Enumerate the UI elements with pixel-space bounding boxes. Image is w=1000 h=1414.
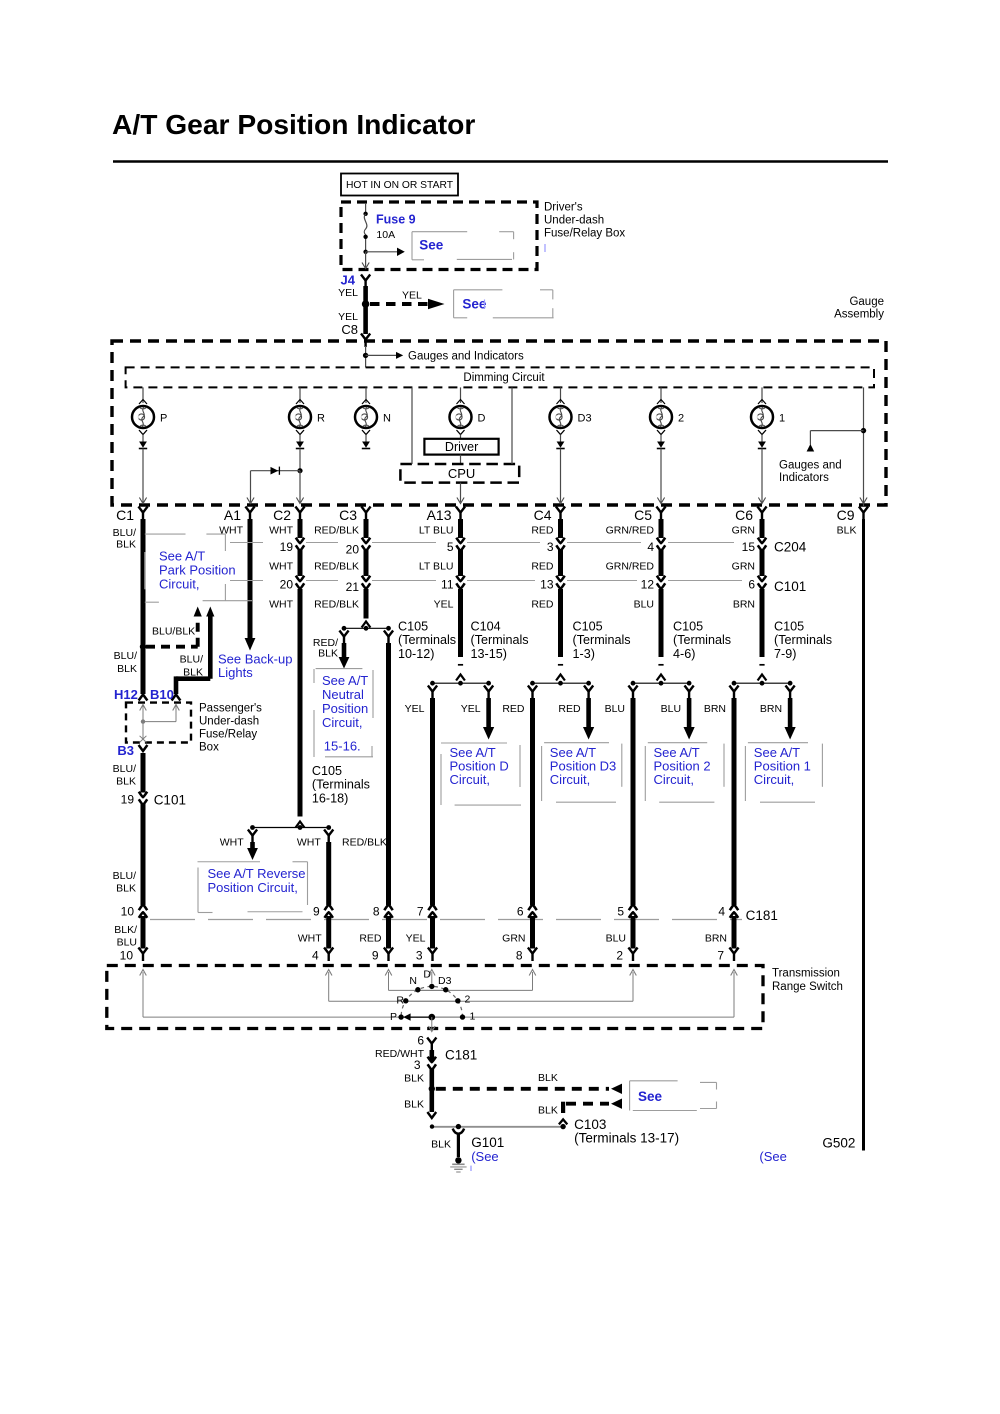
svg-text:C6: C6 — [735, 507, 753, 523]
svg-text:(See: (See — [471, 1149, 498, 1164]
svg-text:Indicators: Indicators — [779, 472, 829, 484]
range switch feed P (pin 10) — [140, 970, 461, 1018]
svg-text:BLK: BLK — [117, 663, 137, 675]
connector reverse branch — [248, 830, 257, 844]
diode D-P — [139, 435, 147, 449]
note: See Back-up Lights — [218, 652, 292, 681]
svg-text:21: 21 — [346, 580, 360, 594]
svg-text:WHT: WHT — [219, 525, 243, 537]
connector pin 13 at C101 — [540, 576, 565, 592]
wire: bulb D3 to connector (exit arrow) — [557, 449, 564, 504]
wire label C5 colour — [606, 525, 655, 537]
svg-text:R: R — [396, 995, 404, 1007]
svg-text:C101: C101 — [154, 793, 186, 808]
svg-text:BLK: BLK — [837, 525, 857, 537]
rotary wiper arm (arrow to P) — [403, 1013, 435, 1020]
wire label C9 colour — [837, 525, 857, 537]
wire label BLU lower — [634, 598, 654, 610]
svg-text:See A/T: See A/T — [159, 549, 205, 564]
svg-text:YEL: YEL — [434, 598, 454, 610]
svg-text:P: P — [160, 413, 167, 425]
svg-text:GRN/RED: GRN/RED — [606, 560, 655, 572]
svg-text:BLU: BLU — [605, 703, 625, 715]
branch node 1 (chevron + rail) — [732, 675, 793, 686]
ground symbol G101 — [450, 1157, 466, 1172]
wire label C2 colour — [269, 525, 293, 537]
connector C9 (gauge assembly exit) — [837, 507, 869, 524]
svg-text:15-16.: 15-16. — [324, 739, 361, 754]
wire J4 YEL down to C8 — [338, 286, 365, 334]
connector pin 8 into range switch — [516, 948, 537, 963]
svg-text:RED: RED — [359, 933, 382, 945]
rotary contact points P R N D D3 2 1 — [398, 984, 465, 1020]
branch node C3 (chevron + rail) — [342, 622, 391, 631]
connector pin 6 below range switch — [417, 1034, 436, 1052]
svg-text:See: See — [638, 1089, 663, 1104]
connector pin 11 at C101 — [441, 576, 465, 592]
svg-text:1: 1 — [470, 1011, 476, 1023]
wire label RED mid — [531, 560, 554, 572]
indicator bulb R — [289, 406, 325, 428]
connector C1 (gauge assembly exit) — [116, 507, 148, 524]
wire label WHT mid — [269, 560, 293, 572]
wire C1 BLU/BLK to H12 — [141, 647, 146, 694]
svg-text:BLK: BLK — [538, 1105, 558, 1117]
svg-text:2: 2 — [465, 994, 471, 1006]
connector pin 15 at C204 — [742, 538, 767, 554]
rotary position labels — [390, 969, 476, 1024]
connector pin 5 at C204 — [447, 538, 465, 554]
svg-text:Position Circuit,: Position Circuit, — [208, 880, 298, 895]
Passenger's Under-dash Fuse/Relay Box (dashed) — [126, 703, 262, 754]
svg-text:20: 20 — [346, 542, 360, 556]
svg-text:10A: 10A — [376, 229, 395, 241]
svg-text:Circuit,: Circuit, — [550, 772, 590, 787]
wire label BLK (lower left) — [404, 1099, 424, 1111]
svg-text:1: 1 — [779, 413, 785, 425]
wire segment C181 x=143 + colour BLK//BLU — [114, 916, 143, 949]
wire C2 right branch down — [326, 842, 331, 905]
wire label RED lower — [531, 598, 554, 610]
svg-text:RED: RED — [558, 703, 581, 715]
svg-text:Park Position: Park Position — [159, 563, 236, 578]
svg-text:B3: B3 — [117, 743, 134, 758]
wire YEL into branch (D) — [458, 589, 463, 657]
svg-text:(Terminals: (Terminals — [573, 633, 631, 647]
svg-text:RED/BLK: RED/BLK — [342, 837, 387, 849]
svg-text:Box: Box — [199, 742, 219, 754]
range switch feed N (pin 9) — [385, 970, 445, 991]
junction node R/backup — [297, 468, 302, 473]
label Gauges and Indicators (right) — [779, 460, 842, 484]
wire label RED/BLK (C3 branch at 842) — [342, 837, 387, 849]
svg-text:Driver's: Driver's — [544, 202, 583, 214]
wire: fuse to J4 (down arrow) — [362, 252, 369, 269]
svg-text:6: 6 — [748, 578, 755, 592]
branch node C2 (chevron + rail) — [250, 822, 331, 830]
svg-text:Circuit,: Circuit, — [159, 577, 199, 592]
label C105 (Terminals 16-18) — [312, 764, 370, 805]
wire: Gauges and Indicators pickup (corner) — [807, 431, 864, 452]
wire: dimming circuit feed to bulb N — [362, 387, 370, 404]
wire BRN into branch (1) — [760, 589, 765, 657]
svg-text:Passenger's: Passenger's — [199, 703, 262, 715]
wire segment C181 x=633 + colour BLU — [606, 916, 633, 949]
wire: dimming circuit feed to bulb 2 — [657, 387, 665, 404]
svg-text:LT BLU: LT BLU — [419, 560, 454, 572]
wire label WHT (C2 right branch) — [297, 837, 321, 849]
wire C1 B3 to pin19 — [141, 753, 146, 793]
note: See A/T Park Position Circuit — [145, 534, 252, 602]
label C105 (Terminals 7-9) — [774, 620, 832, 661]
wire C3 right branch down — [386, 643, 391, 905]
indicator bulb D — [450, 406, 486, 428]
svg-text:BLK: BLK — [183, 667, 203, 679]
connector on neutral branch — [339, 631, 348, 645]
dashed branch to park-position arrow — [146, 607, 202, 647]
diode on back-up feed (horizontal) — [251, 467, 301, 475]
wire label BLU/ BLK (B10 wire) — [180, 654, 203, 679]
wire segment C181 x=532.5 + colour GRN — [502, 916, 532, 949]
range switch feed 1 (pin 7) — [402, 970, 737, 1018]
connector A13 (gauge assembly exit) — [427, 507, 466, 524]
diode D-D3 — [556, 435, 564, 449]
svg-text:D: D — [423, 969, 431, 981]
wire label BLK (upper) — [404, 1073, 424, 1085]
diode D-2 — [657, 435, 665, 449]
wire label YEL (left branch) — [405, 703, 425, 715]
diode D-R — [296, 435, 304, 449]
svg-text:BLU/: BLU/ — [113, 870, 136, 882]
connector C6 (gauge assembly exit) — [735, 507, 767, 524]
svg-text:Circuit,: Circuit, — [754, 772, 794, 787]
svg-text:4: 4 — [647, 540, 654, 554]
svg-text:(See: (See — [759, 1149, 786, 1164]
svg-text:BLU/BLK: BLU/BLK — [152, 626, 195, 638]
connector row C204 (grey line) — [230, 540, 807, 555]
link box: See (fuse box detail) — [412, 232, 514, 260]
connector pin 8 above C181 — [373, 905, 393, 919]
link box: See (ground distribution) — [630, 1081, 717, 1111]
wire label BRN (right branch) — [760, 703, 782, 715]
connector chevron below bulb D3 — [557, 430, 565, 435]
svg-text:C105: C105 — [573, 620, 603, 634]
arrow to See A/T Reverse Position Circuit — [247, 842, 258, 860]
arrow to See A/T Position 2 Circuit — [684, 698, 695, 740]
svg-text:RED: RED — [502, 703, 525, 715]
svg-text:RED: RED — [531, 560, 554, 572]
svg-text:N: N — [409, 975, 417, 987]
connector pin 7 into range switch — [717, 948, 738, 963]
label G101 (See — [471, 1135, 504, 1171]
svg-text:Circuit,: Circuit, — [322, 715, 362, 730]
svg-text:20: 20 — [280, 578, 294, 592]
range switch feed D (pin 3) — [429, 970, 436, 984]
svg-text:Lights: Lights — [218, 665, 253, 680]
svg-text:See: See — [419, 237, 444, 252]
indicator bulb P — [132, 406, 167, 428]
connector pin 4 at C204 — [647, 538, 665, 554]
svg-text:2: 2 — [616, 949, 623, 963]
svg-text:BLU/: BLU/ — [113, 763, 136, 775]
connector pin 5 above C181 — [617, 905, 637, 919]
wire label WHT (reverse) — [220, 837, 244, 849]
svg-text:Fuse/Relay Box: Fuse/Relay Box — [544, 228, 625, 240]
svg-text:A1: A1 — [224, 507, 241, 523]
svg-text:6: 6 — [517, 905, 524, 919]
svg-text:D3: D3 — [578, 413, 592, 425]
connector left branch D — [428, 686, 437, 700]
wire label YEL (right branch) — [461, 703, 481, 715]
svg-text:(Terminals: (Terminals — [673, 633, 731, 647]
Driver box — [424, 435, 498, 455]
indicator bulb N — [355, 406, 391, 428]
svg-text:WHT: WHT — [298, 933, 322, 945]
svg-text:D: D — [478, 413, 486, 425]
label G502 — [822, 1136, 855, 1151]
svg-text:WHT: WHT — [220, 837, 244, 849]
wire label BLU (left branch) — [605, 703, 625, 715]
inline connector mark (dash) D3 — [558, 664, 563, 666]
arrow + label Gauges and Indicators (top) — [366, 350, 524, 362]
connector right branch 2 — [685, 686, 694, 700]
connector pin 4 above C181 — [718, 905, 738, 919]
label (See (bottom right) — [759, 1149, 786, 1164]
svg-text:RED: RED — [531, 598, 554, 610]
wire: bulb R to junction — [299, 449, 301, 471]
svg-text:C181: C181 — [445, 1048, 477, 1063]
wire segment above row1 x=661 — [659, 519, 664, 538]
svg-text:BLU: BLU — [117, 937, 137, 949]
wire: dimming circuit feed to bulb R — [296, 387, 304, 404]
connector pin 21 at C101 — [346, 576, 371, 595]
svg-text:GRN: GRN — [732, 560, 755, 572]
connector pin 12 at C101 — [641, 576, 666, 592]
connector C3 (gauge assembly exit) — [339, 507, 371, 524]
svg-text:13: 13 — [540, 578, 554, 592]
connector chevron below bulb R — [296, 430, 304, 435]
wire segment row1-row2 x=366 — [364, 550, 369, 577]
branch node D3 (chevron + rail) — [530, 675, 591, 686]
svg-text:G101: G101 — [471, 1135, 504, 1150]
svg-text:C105: C105 — [673, 620, 703, 634]
svg-text:C101: C101 — [774, 579, 806, 594]
svg-text:CPU: CPU — [448, 466, 475, 481]
svg-text:BLK: BLK — [404, 1073, 424, 1085]
wire label BRN lower — [733, 598, 755, 610]
range switch feed R (pin 4) — [325, 970, 456, 1002]
svg-text:7: 7 — [417, 905, 424, 919]
connector pin 3 into range switch — [416, 948, 437, 963]
wire label BRN (left branch) — [704, 703, 726, 715]
svg-text:2: 2 — [678, 413, 684, 425]
inline connector mark (dash) 2 — [658, 664, 663, 666]
svg-text:12: 12 — [641, 578, 655, 592]
svg-text:8: 8 — [373, 905, 380, 919]
svg-text:Circuit,: Circuit, — [654, 772, 694, 787]
wire C3 lower — [364, 589, 369, 619]
svg-text:C5: C5 — [634, 507, 652, 523]
wire segment row1-row2 x=762 — [760, 550, 765, 577]
wire C1 pin19 to pin10 — [141, 804, 146, 906]
wire BLK down — [429, 1069, 434, 1112]
svg-text:WHT: WHT — [297, 837, 321, 849]
label C104 (Terminals 13-15) — [471, 620, 529, 661]
note: See A/T Position D3 Circuit — [542, 743, 622, 803]
svg-text:BLK/: BLK/ — [114, 924, 137, 936]
svg-text:(Terminals: (Terminals — [312, 778, 370, 792]
svg-text:C105: C105 — [312, 764, 342, 778]
svg-text:C9: C9 — [837, 507, 855, 523]
connector C5 (gauge assembly exit) — [634, 507, 666, 524]
dashed YEL branch wire with arrow — [370, 290, 445, 310]
svg-text:C3: C3 — [339, 507, 357, 523]
svg-text:10: 10 — [120, 949, 134, 963]
diode D-1 — [758, 435, 766, 449]
svg-text:LT BLU: LT BLU — [419, 525, 454, 537]
svg-text:A13: A13 — [427, 507, 452, 523]
wire segment above row1 x=560.5 — [558, 519, 563, 538]
svg-text:BLU/: BLU/ — [114, 650, 137, 662]
connector pin 3 at C204 — [547, 538, 565, 554]
note: See A/T Reverse Position Circuit — [198, 862, 308, 913]
svg-text:BLK: BLK — [318, 648, 338, 660]
svg-text:D3: D3 — [438, 975, 452, 987]
connector C2 (gauge assembly exit) — [273, 507, 305, 524]
svg-text:19: 19 — [121, 793, 135, 807]
connector right branch D — [484, 686, 493, 700]
svg-text:RED/BLK: RED/BLK — [314, 598, 359, 610]
svg-text:BLU: BLU — [634, 598, 654, 610]
svg-text:BLU/: BLU/ — [113, 527, 136, 539]
wire label GRN/RED mid — [606, 560, 655, 572]
wire label C1 colour — [113, 527, 136, 551]
connector C2 right branch — [324, 830, 333, 844]
svg-text:BLU/: BLU/ — [180, 654, 203, 666]
svg-text:N: N — [383, 413, 391, 425]
svg-text:15: 15 — [742, 540, 756, 554]
wire left branch D3 down — [530, 698, 535, 905]
link box: See (YEL branch) — [454, 290, 554, 318]
wire: dimming circuit feed to bulb D3 — [557, 387, 565, 404]
svg-text:Under-dash: Under-dash — [544, 215, 604, 227]
svg-text:BLK: BLK — [116, 883, 136, 895]
wire left branch 2 down — [631, 698, 636, 905]
label C105 (Terminals 10-12) — [398, 620, 456, 661]
svg-text:P: P — [390, 1011, 397, 1023]
wire: dimming circuit to CPU left — [411, 387, 413, 464]
note: See A/T Position 2 Circuit — [645, 743, 724, 803]
label box HOT IN ON OR START — [341, 174, 458, 196]
dashed BLK wire to See link (upper) — [436, 1072, 622, 1094]
svg-text:YEL: YEL — [461, 703, 481, 715]
svg-text:Gauge: Gauge — [849, 296, 884, 308]
connector pin 10 above C181 — [121, 905, 148, 919]
svg-text:10-12): 10-12) — [398, 647, 434, 661]
svg-text:(Terminals: (Terminals — [471, 633, 529, 647]
wire RED/WHT + C181 label — [375, 1048, 477, 1063]
svg-text:BLK: BLK — [538, 1072, 558, 1084]
CPU box (dashed) — [400, 464, 519, 483]
svg-text:BLK: BLK — [116, 776, 136, 788]
svg-text:11: 11 — [441, 578, 454, 592]
junction node BLK — [429, 1086, 435, 1092]
wire segment C181 x=388.5 + colour RED — [359, 916, 388, 949]
connector chevron below bulb 2 — [657, 430, 665, 435]
connector chevron below bulb 1 — [758, 430, 766, 435]
svg-text:4: 4 — [312, 949, 319, 963]
svg-text:BLU: BLU — [661, 703, 681, 715]
wire segment row1-row2 x=300 — [298, 550, 303, 577]
svg-text:RED: RED — [531, 525, 554, 537]
connector C8 — [341, 322, 370, 347]
svg-text:WHT: WHT — [269, 598, 293, 610]
wire label GRN mid — [732, 560, 755, 572]
connector right branch D3 — [584, 686, 593, 700]
svg-text:R: R — [317, 413, 325, 425]
label C105 (Terminals 4-6) — [673, 620, 731, 661]
connector chevron below bulb P — [139, 430, 147, 435]
range switch feed 2 (pin 2) — [407, 970, 637, 1002]
wire: bulb 1 to connector (exit arrow) — [758, 449, 765, 504]
wire label C3 colour — [314, 525, 359, 537]
svg-text:C8: C8 — [341, 322, 358, 337]
connector B3 — [117, 743, 147, 758]
svg-text:BLK: BLK — [404, 1099, 424, 1111]
svg-text:BLK: BLK — [116, 539, 136, 551]
wire: dimming circuit to CPU right — [511, 387, 513, 464]
wire to G101 ground — [431, 1129, 464, 1157]
svg-text:4: 4 — [718, 905, 725, 919]
svg-text:4-6): 4-6) — [673, 647, 695, 661]
svg-text:YEL: YEL — [402, 290, 422, 302]
svg-text:9: 9 — [313, 905, 320, 919]
wire RED into branch (D3) — [558, 589, 563, 657]
svg-text:C1: C1 — [116, 507, 134, 523]
svg-text:GRN/RED: GRN/RED — [606, 525, 655, 537]
wire: dimming circuit feed to bulb P — [139, 387, 147, 404]
range switch feed D3 (pin 8) — [419, 970, 536, 991]
connector left branch D3 — [528, 686, 537, 700]
svg-text:G502: G502 — [822, 1136, 855, 1151]
wire C1 BLU/BLK upper — [141, 519, 146, 647]
svg-text:A/T Gear Position Indicator: A/T Gear Position Indicator — [112, 108, 475, 140]
svg-text:7-9): 7-9) — [774, 647, 796, 661]
connector on C3 right branch — [384, 631, 393, 645]
svg-text:Neutral: Neutral — [322, 687, 364, 702]
connector pin 6 at C101 — [748, 576, 766, 592]
passenger box internal wiring — [140, 704, 180, 742]
svg-text:RED/BLK: RED/BLK — [314, 560, 359, 572]
svg-text:YEL: YEL — [405, 703, 425, 715]
svg-text:Gauges and Indicators: Gauges and Indicators — [408, 350, 524, 362]
wire label A1 colour — [219, 525, 243, 537]
connector left branch 2 — [628, 686, 637, 700]
arrow to See A/T Position 1 Circuit — [785, 698, 796, 740]
wire segment C181 x=328.7 + colour WHT — [298, 916, 329, 949]
svg-text:WHT: WHT — [269, 525, 293, 537]
connector chevron below bulb D — [457, 430, 465, 435]
wire label BLU (right branch) — [661, 703, 681, 715]
wire label RED/BLK mid — [314, 560, 359, 572]
wire label BLU/ BLK (C1 above H12) — [114, 650, 137, 675]
connector pin 6 above C181 — [517, 905, 537, 919]
wire segment C181 x=734 + colour BRN — [705, 916, 734, 949]
wire label WHT lower — [269, 598, 293, 610]
svg-text:16-18): 16-18) — [312, 791, 348, 805]
Dimming Circuit box (dashed) — [126, 367, 874, 387]
wire C2 lower — [298, 589, 303, 817]
